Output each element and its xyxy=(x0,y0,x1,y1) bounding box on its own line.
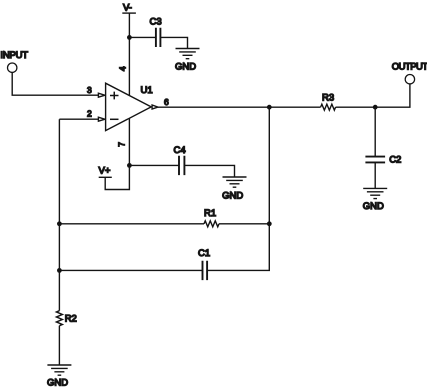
pin 3 xyxy=(87,85,105,97)
svg-text:R2: R2 xyxy=(65,314,77,325)
junction xyxy=(127,163,132,168)
wire xyxy=(58,326,60,365)
junction xyxy=(57,221,62,226)
svg-text:C2: C2 xyxy=(389,154,401,165)
wire xyxy=(129,36,155,38)
wire xyxy=(374,163,376,189)
wire xyxy=(207,224,269,271)
svg-text:3: 3 xyxy=(87,85,92,95)
svg-text:R1: R1 xyxy=(204,208,216,219)
junction xyxy=(373,105,378,110)
resistor R1 xyxy=(204,208,219,227)
wire xyxy=(336,84,410,107)
svg-text:C1: C1 xyxy=(198,248,210,259)
svg-text:V-: V- xyxy=(123,3,132,14)
resistor R3 xyxy=(321,92,336,110)
svg-text:4: 4 xyxy=(118,66,128,71)
pin 2 xyxy=(87,109,105,122)
wire xyxy=(129,164,179,166)
svg-text:7: 7 xyxy=(117,142,127,147)
wire xyxy=(59,118,98,120)
capacitor C1 xyxy=(198,248,210,280)
svg-text:2: 2 xyxy=(87,109,92,119)
supply V+ xyxy=(99,165,130,189)
svg-text:R3: R3 xyxy=(322,92,334,103)
wire R1 left xyxy=(59,223,204,225)
svg-text:INPUT: INPUT xyxy=(0,50,28,61)
ground xyxy=(175,49,200,73)
junction xyxy=(267,105,272,110)
junction xyxy=(57,268,62,273)
wire feedback right xyxy=(268,107,270,224)
svg-text:GND: GND xyxy=(47,377,68,388)
capacitor C4 xyxy=(174,145,186,175)
resistor R2 xyxy=(56,311,76,326)
wire pin 4 xyxy=(128,13,130,96)
ground xyxy=(363,188,387,212)
capacitor C2 xyxy=(365,154,401,165)
svg-text:OUTPUT: OUTPUT xyxy=(392,62,427,73)
ground xyxy=(222,177,246,202)
wire xyxy=(185,165,235,177)
svg-text:C3: C3 xyxy=(150,17,162,28)
svg-text:GND: GND xyxy=(363,201,384,212)
wire xyxy=(12,73,98,96)
wire pin 7 xyxy=(128,118,130,165)
capacitor C3 xyxy=(150,17,162,48)
wire left vertical xyxy=(58,119,60,311)
pin 6 xyxy=(152,97,169,109)
wire C1 left xyxy=(59,269,202,271)
svg-text:GND: GND xyxy=(222,191,243,202)
terminal OUTPUT xyxy=(392,62,427,84)
terminal INPUT xyxy=(0,50,28,72)
supply V- xyxy=(122,3,136,14)
wire R1 right xyxy=(219,223,269,225)
op-amp U1 xyxy=(106,83,153,130)
svg-text:C4: C4 xyxy=(174,145,186,156)
ground xyxy=(47,365,71,388)
svg-text:V+: V+ xyxy=(99,166,111,177)
wire output node xyxy=(158,106,321,108)
wire xyxy=(374,107,376,156)
svg-text:U1: U1 xyxy=(141,85,153,96)
wire xyxy=(161,37,188,48)
svg-text:6: 6 xyxy=(164,97,169,107)
svg-text:GND: GND xyxy=(175,61,196,72)
junction xyxy=(127,35,132,40)
junction xyxy=(267,221,272,226)
